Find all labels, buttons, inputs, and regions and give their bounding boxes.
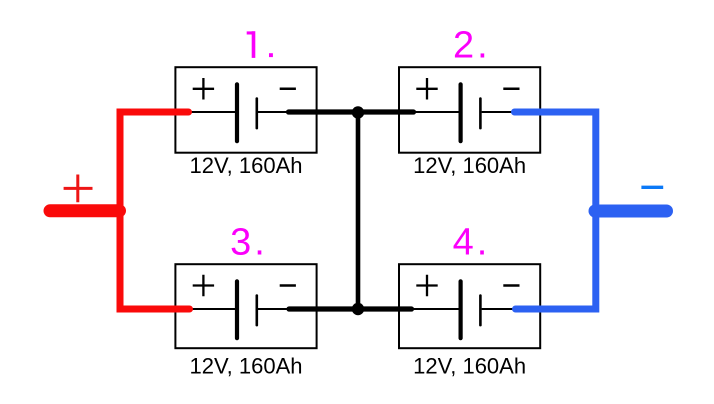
svg-text:2.: 2.	[453, 25, 491, 67]
battery B3 value label	[190, 354, 303, 379]
battery B3 lead wires	[183, 308, 309, 310]
battery B1 box	[175, 67, 316, 153]
wire blue negative bus	[515, 112, 596, 309]
svg-text:12V, 160Ah: 12V, 160Ah	[413, 354, 526, 379]
battery B2 minus mark	[503, 88, 519, 91]
battery B2 plus mark	[416, 78, 437, 100]
battery B3 plus mark	[193, 275, 214, 297]
svg-text:4.: 4.	[453, 222, 491, 264]
battery B2 box	[399, 67, 540, 153]
battery B1 positive plate	[235, 84, 239, 141]
wire red positive bus	[120, 112, 190, 309]
battery B4 value label	[413, 354, 526, 379]
label 4.	[453, 222, 491, 264]
node junction top	[352, 106, 364, 118]
label 1.	[247, 31, 273, 58]
battery B4 lead wires	[407, 308, 533, 310]
battery B1 minus mark	[280, 88, 296, 91]
negative terminal stub	[595, 205, 667, 218]
battery B4 positive plate	[459, 281, 463, 338]
battery B3 minus mark	[280, 284, 296, 287]
battery B4 box	[399, 264, 540, 348]
node junction bottom	[352, 303, 364, 315]
wire black B1- to B2+	[289, 109, 414, 114]
battery B1 value label	[190, 153, 303, 178]
+ terminal label	[64, 175, 93, 203]
svg-text:12V, 160Ah: 12V, 160Ah	[190, 354, 303, 379]
battery B2 positive plate	[459, 84, 463, 141]
label 3.	[230, 222, 268, 264]
label 2.	[453, 25, 491, 67]
battery B4 minus mark	[503, 284, 519, 287]
battery B1 plus mark	[193, 78, 214, 100]
battery B2 lead wires	[407, 111, 533, 113]
battery B3 positive plate	[235, 281, 239, 338]
battery B1 negative plate	[255, 99, 258, 129]
battery B4 plus mark	[416, 275, 437, 297]
battery B2 negative plate	[479, 99, 482, 129]
svg-text:12V, 160Ah: 12V, 160Ah	[190, 153, 303, 178]
battery B4 negative plate	[479, 296, 482, 326]
wire black middle vertical link	[356, 112, 361, 309]
svg-text:3.: 3.	[230, 222, 268, 264]
battery B3 box	[175, 264, 316, 348]
positive terminal stub	[50, 204, 120, 217]
battery B2 value label	[413, 153, 526, 178]
battery B3 negative plate	[255, 296, 258, 326]
wire black B3- to B4+	[289, 306, 412, 311]
svg-text:12V, 160Ah: 12V, 160Ah	[413, 153, 526, 178]
- terminal label	[641, 186, 663, 189]
battery B1 lead wires	[183, 111, 309, 113]
